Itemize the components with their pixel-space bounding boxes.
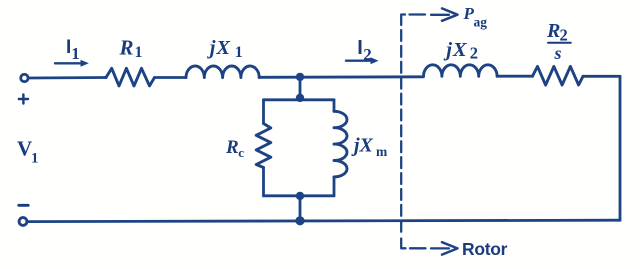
resistor Rc (256, 124, 271, 168)
inductor jX1 (186, 66, 259, 78)
wire jX1 to jX2 (through node) (259, 75, 423, 78)
air-gap dashed bottom horizontal dash (410, 247, 426, 249)
svg-text:2: 2 (363, 45, 372, 64)
svg-text:V: V (17, 136, 32, 160)
label jX2 (443, 39, 478, 62)
wire bottom (27, 220, 620, 221)
label Rc (225, 137, 244, 160)
label I1 (66, 37, 80, 63)
P_ag arrowhead (442, 8, 458, 20)
wire jXm branch lower (333, 177, 336, 196)
svg-text:ag: ag (474, 15, 488, 30)
svg-text:Rotor: Rotor (462, 239, 508, 259)
wire R2/s to right corner (583, 75, 620, 78)
label I2 (357, 37, 372, 64)
label jX1 (207, 37, 243, 61)
svg-text:I: I (357, 37, 363, 59)
svg-text:1: 1 (31, 151, 39, 167)
wire jXm branch upper (333, 100, 336, 112)
svg-text:jX: jX (351, 135, 374, 157)
svg-text:2: 2 (560, 26, 568, 45)
resistor R2/s (533, 66, 584, 85)
svg-text:R: R (119, 36, 134, 60)
air-gap dashed vertical line (400, 30, 402, 232)
Rotor arrow lead line (431, 247, 449, 249)
svg-text:1: 1 (71, 44, 80, 63)
svg-text:s: s (554, 43, 562, 63)
svg-text:jX: jX (207, 37, 232, 59)
wire shunt stub top (299, 77, 302, 100)
minus sign (19, 204, 28, 207)
svg-text:1: 1 (235, 44, 243, 61)
current arrow I2 (346, 57, 379, 64)
current arrow I1 (55, 60, 89, 67)
svg-text:c: c (238, 145, 244, 160)
wire jX2 to R2/s (497, 75, 532, 78)
wire box top edge (264, 98, 335, 101)
svg-text:jX: jX (443, 39, 468, 61)
label jXm (351, 135, 388, 160)
resistor R1 (106, 68, 155, 86)
air-gap dashed top corner (401, 15, 405, 26)
wire right vertical (619, 76, 622, 220)
label R2 over s (546, 20, 571, 63)
wire box bottom edge (264, 194, 335, 197)
inductor jXm (334, 111, 347, 177)
node dot top of stub (296, 73, 304, 81)
svg-text:R: R (225, 137, 239, 158)
inductor jX2 (424, 65, 498, 77)
wire top-left (terminal to R1) (29, 76, 106, 79)
node dot box top (296, 94, 304, 102)
wire shunt stub bottom (299, 196, 302, 221)
plus sign (19, 94, 28, 103)
svg-text:m: m (376, 144, 388, 159)
wire R1 to jX1 (155, 76, 187, 79)
label V1 (17, 136, 39, 166)
terminal top-left (21, 74, 28, 81)
wire Rc branch upper (262, 100, 265, 124)
terminal bottom-left (19, 218, 27, 226)
node dot box bottom (296, 192, 304, 200)
wire Rc branch lower (262, 168, 265, 196)
Rotor arrowhead (442, 242, 458, 254)
svg-text:1: 1 (135, 44, 143, 61)
air-gap dashed top horizontal dash (410, 13, 426, 15)
svg-text:2: 2 (470, 43, 478, 62)
P_ag arrow lead line (431, 14, 449, 16)
svg-text:R: R (546, 20, 560, 42)
label R1 (119, 36, 143, 62)
node dot bottom wire (295, 216, 304, 225)
air-gap dashed bottom corner (401, 239, 405, 249)
label P_ag (463, 4, 488, 30)
